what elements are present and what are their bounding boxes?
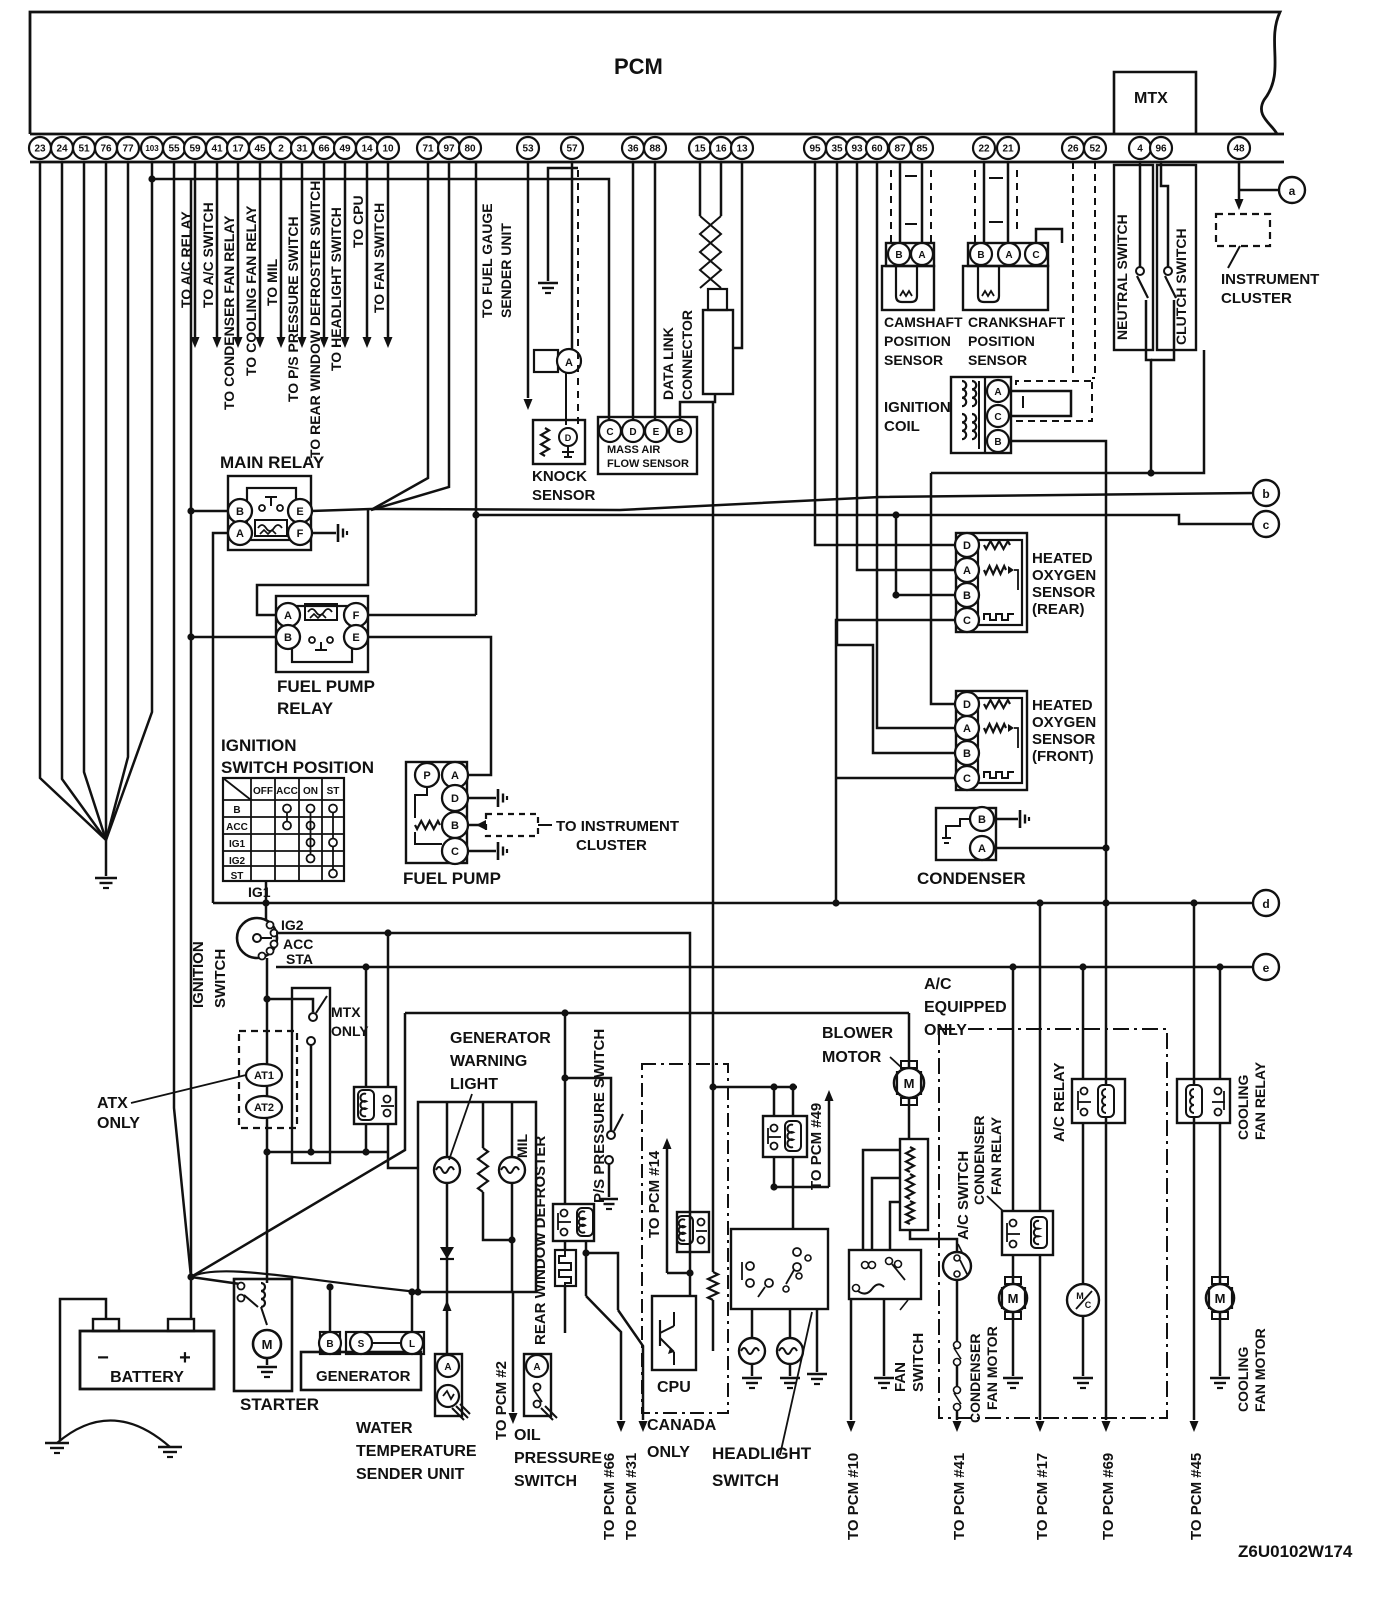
svg-text:B: B — [963, 748, 971, 760]
svg-text:IG2: IG2 — [229, 856, 246, 867]
wire main relay E to bus — [311, 509, 371, 511]
wire CPU feed — [689, 1273, 692, 1296]
PCM pin 60 — [866, 137, 888, 159]
wire TO PCM 69 — [1102, 1421, 1111, 1432]
svg-text:TO PCM #45: TO PCM #45 — [1188, 1453, 1205, 1540]
svg-text:MTX: MTX — [1134, 90, 1168, 107]
svg-text:MIL: MIL — [514, 1133, 530, 1158]
svg-text:(REAR): (REAR) — [1032, 601, 1085, 618]
wire condenser fan motor — [1012, 1255, 1015, 1284]
blower resistor box — [900, 1139, 928, 1230]
svg-text:TO PCM #69: TO PCM #69 — [1100, 1453, 1117, 1540]
svg-text:ATX: ATX — [97, 1095, 128, 1112]
wire P/S pressure switch feed — [565, 1078, 611, 1131]
svg-text:A: A — [236, 528, 244, 540]
svg-text:e: e — [1263, 961, 1270, 975]
svg-text:TO MIL: TO MIL — [264, 258, 280, 306]
PCM pin 55 — [163, 137, 185, 159]
knock sensor KS — [533, 420, 585, 464]
PCM pin 103 — [141, 137, 163, 159]
svg-text:B: B — [326, 1339, 333, 1350]
svg-text:ACC: ACC — [226, 822, 248, 833]
wire e line to condenser fan relay — [1012, 967, 1015, 1211]
wire to MTX switch — [267, 999, 313, 1012]
wire battery ray join — [414, 1288, 421, 1295]
wire y1013 feed line — [405, 1012, 909, 1015]
headlight lamp right — [777, 1338, 803, 1364]
svg-text:GENERATOR: GENERATOR — [316, 1368, 411, 1385]
wire fuel pump C to ground — [468, 850, 496, 853]
resistor (cluster) — [482, 1102, 485, 1148]
PCM pin 53 — [517, 137, 539, 159]
PCM pin 59 — [184, 137, 206, 159]
clutch switch box — [1157, 165, 1196, 350]
wire neutral+clutch common down — [1146, 350, 1151, 473]
svg-text:M: M — [1215, 1291, 1226, 1306]
fuel pump relay — [276, 596, 368, 672]
PCM pin 2 — [270, 137, 292, 159]
PCM pin 76 — [95, 137, 117, 159]
wire TO PCM 14 — [667, 1272, 690, 1275]
PCM pin 66 — [313, 137, 335, 159]
wire from pin to to rear window defroster switch — [323, 162, 326, 337]
water temperature sender unit — [435, 1354, 462, 1416]
headlight relay — [763, 1116, 807, 1157]
PCM pin 45 — [249, 137, 271, 159]
heated oxygen sensor front — [956, 691, 1027, 790]
ground (battery left) — [59, 1410, 62, 1441]
wire from pin to to p/s pressure switch — [301, 162, 304, 337]
svg-text:B: B — [451, 820, 459, 832]
svg-text:IGNITION: IGNITION — [221, 736, 297, 755]
wire pin 13 into data link connector — [733, 162, 742, 348]
wire fuel pump relay E to fuel pump — [367, 637, 491, 775]
wire pin 48 to instrument cluster — [1238, 162, 1241, 199]
svg-text:13: 13 — [736, 144, 748, 155]
svg-text:KNOCK: KNOCK — [532, 468, 587, 485]
PCM pin 14 — [356, 137, 378, 159]
svg-text:FAN RELAY: FAN RELAY — [988, 1116, 1004, 1195]
PCM pin 95 — [804, 137, 826, 159]
PCM pin 31 — [291, 137, 313, 159]
svg-text:41: 41 — [211, 144, 223, 155]
wire condenser fan relay coil — [1039, 903, 1042, 1211]
svg-text:B: B — [963, 590, 971, 602]
clutch switch contact — [1164, 267, 1172, 275]
svg-text:A: A — [963, 565, 971, 577]
MTX only switch box — [292, 988, 330, 1163]
svg-text:ONLY: ONLY — [331, 1023, 369, 1039]
wire defroster relay to heater element — [564, 1241, 567, 1250]
wire bus y179 from pin 103 region to MAF sensor — [152, 179, 609, 420]
rear window defroster element — [555, 1250, 576, 1286]
wire TO PCM 41 — [956, 1411, 959, 1420]
svg-text:TO CPU: TO CPU — [350, 195, 366, 248]
svg-text:TO REAR WINDOW DEFROSTER SWITC: TO REAR WINDOW DEFROSTER SWITCH — [307, 181, 323, 458]
svg-text:23: 23 — [34, 144, 46, 155]
svg-text:53: 53 — [522, 144, 534, 155]
battery — [80, 1331, 214, 1389]
PCM pin 23 — [29, 137, 51, 159]
svg-text:TO PCM #66: TO PCM #66 — [601, 1453, 618, 1540]
svg-text:AT1: AT1 — [254, 1070, 274, 1082]
svg-text:A/C RELAY: A/C RELAY — [1051, 1063, 1068, 1142]
ground (fuel pump D) — [497, 789, 500, 807]
wire TO PCM 31 — [618, 1310, 643, 1420]
svg-text:31: 31 — [296, 144, 308, 155]
svg-text:ON: ON — [303, 786, 318, 797]
svg-text:A: A — [963, 723, 971, 735]
svg-text:CONDENSER: CONDENSER — [917, 869, 1026, 888]
svg-text:PCM: PCM — [614, 54, 663, 79]
wire TO PCM 45 — [1190, 1421, 1199, 1432]
svg-text:C: C — [451, 846, 459, 858]
wire pin 96 to clutch switch — [1161, 162, 1168, 267]
neutral switch contact — [1136, 267, 1144, 275]
condenser fan motor — [1005, 1277, 1021, 1284]
svg-text:21: 21 — [1002, 144, 1014, 155]
AC switch — [943, 1252, 971, 1280]
wire pin 35 to HO2S front B — [837, 162, 955, 753]
wire IG1 from table to ignition switch — [265, 881, 268, 920]
svg-text:M: M — [1008, 1291, 1019, 1306]
ground (P/S pressure switch) — [608, 1186, 611, 1197]
fan switch box — [849, 1250, 921, 1299]
svg-text:14: 14 — [361, 144, 373, 155]
svg-text:P/S PRESSURE SWITCH: P/S PRESSURE SWITCH — [591, 1029, 608, 1203]
svg-text:FUEL PUMP: FUEL PUMP — [277, 677, 375, 696]
svg-text:HEATED: HEATED — [1032, 550, 1093, 567]
svg-text:L: L — [409, 1339, 415, 1350]
svg-text:INSTRUMENT: INSTRUMENT — [1221, 271, 1319, 288]
wire DLC line y1087 — [713, 1086, 797, 1089]
ground (knock sensor shield) — [538, 282, 558, 285]
svg-text:CANADA: CANADA — [647, 1417, 717, 1434]
wire from pin to to headlight switch — [344, 162, 347, 337]
svg-text:A: A — [978, 843, 986, 855]
svg-text:OFF: OFF — [253, 786, 273, 797]
svg-text:MOTOR: MOTOR — [822, 1049, 882, 1066]
svg-text:BLOWER: BLOWER — [822, 1025, 894, 1042]
svg-text:66: 66 — [318, 144, 330, 155]
AC equipped only dash-dot box — [939, 1029, 1167, 1418]
PCM pin 35 — [826, 137, 848, 159]
PCM pin 96 — [1150, 137, 1172, 159]
knock sensor connector A — [534, 350, 558, 372]
PCM pin 16 — [710, 137, 732, 159]
svg-text:OIL: OIL — [514, 1427, 541, 1444]
wire ignition coil A-C loop — [1009, 391, 1071, 416]
svg-text:B: B — [233, 805, 240, 816]
svg-text:S: S — [358, 1339, 365, 1350]
svg-text:POSITION: POSITION — [884, 333, 951, 349]
wire resistor taps — [863, 1150, 900, 1249]
PCM pin 93 — [846, 137, 868, 159]
AC relay — [1072, 1079, 1125, 1123]
svg-text:TO P/S PRESSURE SWITCH: TO P/S PRESSURE SWITCH — [285, 216, 301, 402]
headlight lamp left — [739, 1338, 765, 1364]
wire AC switch down contacts — [956, 1280, 959, 1341]
PCM pin 51 — [73, 137, 95, 159]
wire fuel pump relay F to pin 80 line — [367, 614, 476, 617]
svg-text:D: D — [565, 433, 572, 443]
svg-text:WATER: WATER — [356, 1420, 413, 1437]
wire blower feed — [908, 1013, 911, 1069]
ground (main relay F) — [337, 524, 340, 542]
svg-text:a: a — [1289, 184, 1296, 198]
svg-text:C: C — [963, 773, 971, 785]
wire headlight relay top — [773, 1087, 776, 1116]
wire branch to condenser fan relay coil — [1036, 899, 1043, 906]
svg-text:b: b — [1262, 487, 1269, 501]
svg-text:TO CONDENSER FAN RELAY: TO CONDENSER FAN RELAY — [221, 215, 237, 410]
ground (battery negative bundle) — [95, 877, 117, 880]
svg-text:A: A — [918, 250, 925, 261]
battery positive junction rays — [191, 1013, 405, 1277]
crankshaft position sensor wires pins 22/21 — [983, 162, 986, 243]
svg-text:GENERATOR: GENERATOR — [450, 1030, 551, 1047]
label instrument cluster — [1228, 246, 1240, 268]
svg-text:F: F — [297, 528, 304, 540]
shield ground wire y168 — [548, 168, 578, 281]
camshaft position sensor body — [882, 266, 934, 310]
svg-text:CONDENSER: CONDENSER — [971, 1116, 987, 1205]
wire main relay B line down to battery junction — [190, 511, 193, 1277]
wire crank C jog — [1036, 229, 1062, 243]
svg-text:AT2: AT2 — [254, 1102, 274, 1114]
svg-text:SENSOR: SENSOR — [884, 352, 943, 368]
dashed shield ignition coil — [1016, 381, 1092, 385]
svg-text:B: B — [994, 437, 1001, 448]
wire node c line from pin 80 line — [476, 515, 1253, 524]
starter interlock relay — [354, 1087, 396, 1124]
svg-text:85: 85 — [916, 144, 928, 155]
wire pin 80 to fuel pump relay F — [475, 162, 478, 615]
svg-text:CLUTCH SWITCH: CLUTCH SWITCH — [1173, 228, 1189, 345]
wire TO PCM 17 — [1036, 1421, 1045, 1432]
svg-text:EQUIPPED: EQUIPPED — [924, 999, 1007, 1016]
wire headlight relay bottom — [773, 1157, 776, 1187]
wire pin 95 to HO2S rear D — [815, 162, 955, 545]
svg-text:CONNECTOR: CONNECTOR — [679, 310, 695, 400]
svg-text:71: 71 — [422, 144, 434, 155]
wire pin 57 to knock sensor — [571, 162, 574, 350]
wire fuel pump D to ground — [468, 797, 496, 800]
svg-text:48: 48 — [1233, 144, 1245, 155]
ground (headlight switch) — [807, 1373, 827, 1376]
svg-text:FAN RELAY: FAN RELAY — [1252, 1061, 1268, 1140]
svg-text:55: 55 — [168, 144, 180, 155]
wire from pin to to cpu — [366, 162, 369, 337]
svg-text:SENDER UNIT: SENDER UNIT — [356, 1466, 465, 1483]
svg-text:E: E — [296, 506, 303, 518]
wire pin 36 to MAF D — [632, 162, 635, 420]
svg-text:c: c — [1263, 518, 1270, 532]
wire IG2 line to CPU area — [276, 933, 690, 1273]
crankshaft position sensor body — [963, 266, 1048, 310]
svg-text:PRESSURE: PRESSURE — [514, 1450, 602, 1467]
wire interlock bottom connections — [365, 1124, 368, 1152]
wire pin 88 to MAF E — [654, 162, 657, 420]
svg-text:A: A — [994, 387, 1001, 398]
svg-text:A: A — [451, 770, 459, 782]
MTX connector box on PCM — [1114, 72, 1196, 134]
svg-text:ONLY: ONLY — [647, 1444, 690, 1461]
svg-text:CLUSTER: CLUSTER — [1221, 290, 1292, 307]
svg-text:TEMPERATURE: TEMPERATURE — [356, 1443, 477, 1460]
PCM pin 88 — [644, 137, 666, 159]
wire from pin to to fan switch — [387, 162, 390, 337]
wire from pin to to a/c switch — [216, 162, 219, 337]
svg-text:17: 17 — [232, 144, 244, 155]
wire ignition coil B to AC relay column — [1009, 441, 1106, 903]
wire battery positive up — [190, 1277, 193, 1319]
svg-text:TO COOLING FAN RELAY: TO COOLING FAN RELAY — [243, 205, 259, 376]
wire defroster feed — [564, 1013, 567, 1204]
wire TO PCM 49 — [828, 1100, 831, 1187]
ground (headlight left) — [742, 1377, 762, 1380]
svg-text:DATA LINK: DATA LINK — [660, 327, 676, 400]
svg-text:D: D — [963, 540, 971, 552]
svg-text:FLOW SENSOR: FLOW SENSOR — [607, 458, 689, 470]
node e circle — [1253, 954, 1279, 980]
svg-text:STARTER: STARTER — [240, 1395, 319, 1414]
ignition coil — [951, 377, 1011, 453]
wire fan switch grounds — [883, 1299, 886, 1376]
ground (condenser fan motor) — [1003, 1377, 1023, 1380]
PCM pin 87 — [889, 137, 911, 159]
heated oxygen sensor rear — [956, 533, 1027, 632]
svg-text:2: 2 — [278, 144, 284, 155]
wire main relay B left — [191, 510, 229, 513]
CPU box — [652, 1296, 696, 1370]
svg-text:IG1: IG1 — [248, 884, 271, 900]
wire main relay A down to node d line — [213, 533, 229, 903]
svg-text:COIL: COIL — [884, 418, 920, 435]
PCM pin 13 — [731, 137, 753, 159]
instrument cluster dashed stub — [486, 814, 538, 836]
svg-text:(FRONT): (FRONT) — [1032, 748, 1094, 765]
svg-text:MAIN RELAY: MAIN RELAY — [220, 453, 325, 472]
node b circle — [1253, 480, 1279, 506]
svg-text:E: E — [352, 632, 359, 644]
wire bundle pins 23/24/51/76/77/103 to ground — [40, 162, 106, 840]
wire pin 55 down to battery junction — [174, 162, 191, 1277]
svg-text:D: D — [963, 699, 971, 711]
svg-text:OXYGEN: OXYGEN — [1032, 567, 1096, 584]
ATX only dashed box — [239, 1031, 297, 1128]
svg-text:TO HEADLIGHT SWITCH: TO HEADLIGHT SWITCH — [328, 207, 344, 371]
camshaft position sensor connector — [886, 243, 934, 266]
resistor (headlight circuit) — [712, 1087, 715, 1272]
data link connector — [708, 289, 727, 310]
generator — [301, 1352, 421, 1390]
ignition switch — [237, 918, 277, 958]
svg-text:TO PCM #31: TO PCM #31 — [623, 1453, 640, 1540]
svg-text:STA: STA — [286, 951, 313, 967]
PCM pin 77 — [117, 137, 139, 159]
wire pin 4 to neutral switch — [1139, 162, 1142, 268]
svg-text:ACC: ACC — [283, 936, 313, 952]
svg-text:36: 36 — [627, 144, 639, 155]
svg-text:4: 4 — [1137, 144, 1143, 155]
wire blower to resistor — [908, 1097, 911, 1139]
condenser — [936, 808, 996, 860]
twisted pair wires pins 15/16 — [699, 162, 702, 216]
ground (starter) — [257, 1366, 277, 1369]
svg-text:MTX: MTX — [331, 1004, 361, 1020]
wire fuel pump B to instrument cluster — [468, 824, 486, 827]
svg-text:16: 16 — [715, 144, 727, 155]
svg-text:CRANKSHAFT: CRANKSHAFT — [968, 314, 1066, 330]
mass air flow sensor — [598, 417, 697, 474]
PCM pin 21 — [997, 137, 1019, 159]
diode — [446, 1183, 449, 1292]
svg-text:SENSOR: SENSOR — [1032, 584, 1096, 601]
headlight switch contacts — [746, 1262, 754, 1270]
wire headlight third ground — [816, 1309, 819, 1372]
svg-text:M: M — [904, 1076, 915, 1091]
PCM pin 15 — [689, 137, 711, 159]
svg-text:B: B — [676, 427, 683, 438]
svg-text:B: B — [284, 632, 292, 644]
starter — [234, 1279, 292, 1391]
wire pin 60 to HO2S front A — [877, 162, 955, 728]
svg-text:93: 93 — [851, 144, 863, 155]
svg-text:A: A — [565, 357, 573, 369]
headlight switch box — [731, 1229, 828, 1309]
svg-text:FAN MOTOR: FAN MOTOR — [984, 1326, 1000, 1410]
wire water temp A up to warning lamp — [446, 1292, 449, 1354]
svg-text:IG2: IG2 — [281, 917, 304, 933]
PCM pin 57 — [561, 137, 583, 159]
svg-text:87: 87 — [894, 144, 906, 155]
svg-text:76: 76 — [100, 144, 112, 155]
svg-text:D: D — [451, 793, 459, 805]
svg-text:F: F — [353, 610, 360, 622]
svg-text:WARNING: WARNING — [450, 1053, 527, 1070]
svg-text:TO FAN SWITCH: TO FAN SWITCH — [371, 203, 387, 313]
PCM pin 48 — [1228, 137, 1250, 159]
wire cooling fan relay coil down — [1193, 1117, 1196, 1420]
wire from pin to to cooling fan relay — [259, 162, 262, 337]
svg-text:SWITCH: SWITCH — [712, 1471, 779, 1490]
ground (condenser B) — [1019, 810, 1022, 828]
PCM pin 52 — [1084, 137, 1106, 159]
svg-text:FUEL PUMP: FUEL PUMP — [403, 869, 501, 888]
svg-text:96: 96 — [1155, 144, 1167, 155]
neutral switch box — [1114, 165, 1153, 350]
PCM pin 80 — [459, 137, 481, 159]
svg-text:CPU: CPU — [657, 1379, 691, 1396]
svg-text:103: 103 — [145, 144, 159, 153]
wire DLC down to relays area — [712, 402, 715, 1087]
svg-text:C: C — [963, 615, 971, 627]
svg-text:CONDENSER: CONDENSER — [967, 1334, 983, 1423]
wire cooling fan motor — [1219, 1123, 1222, 1284]
wire e line to cooling fan relay — [1219, 967, 1222, 1079]
svg-text:−: − — [97, 1347, 109, 1369]
dashed wire pin 26 line — [1072, 162, 1074, 378]
svg-text:SWITCH: SWITCH — [212, 949, 229, 1008]
svg-text:E: E — [653, 427, 660, 438]
svg-text:88: 88 — [649, 144, 661, 155]
svg-text:TO PCM #41: TO PCM #41 — [951, 1453, 968, 1540]
wire from pin to to condenser fan relay — [237, 162, 240, 337]
AT1 connector — [246, 1064, 282, 1086]
camshaft position sensor wires pins 87/85 — [899, 162, 902, 243]
svg-text:C: C — [1085, 1300, 1092, 1310]
